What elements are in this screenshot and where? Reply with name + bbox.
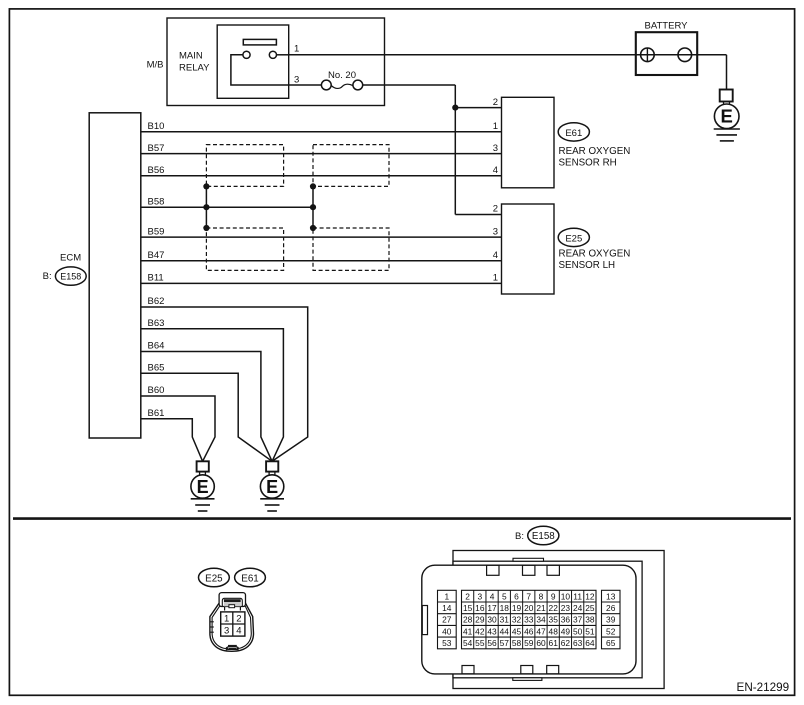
svg-text:B10: B10 (148, 121, 165, 132)
shield around B59/B47 (right) (313, 228, 389, 270)
wire B10 (141, 131, 502, 133)
svg-text:E158: E158 (532, 531, 555, 542)
svg-text:4: 4 (490, 591, 495, 601)
svg-text:1: 1 (444, 591, 449, 601)
svg-text:4: 4 (493, 165, 498, 176)
section separator (13, 517, 791, 520)
connector pin grid 1 2 3 4 (221, 612, 245, 636)
svg-text:2: 2 (236, 613, 241, 624)
svg-text:53: 53 (442, 638, 452, 648)
junction shield left bottom (203, 225, 209, 231)
svg-text:21: 21 (536, 603, 546, 613)
svg-text:B:: B: (43, 271, 52, 282)
svg-text:23: 23 (561, 603, 571, 613)
wire B60 to ground (141, 396, 215, 461)
wire B62 to ground (141, 307, 308, 461)
svg-text:52: 52 (606, 626, 616, 636)
svg-text:5: 5 (502, 591, 507, 601)
svg-text:No. 20: No. 20 (328, 70, 356, 81)
wire B56 (141, 175, 502, 177)
wire B47 (141, 260, 502, 262)
svg-text:BATTERY: BATTERY (645, 20, 689, 31)
wire B11 (141, 282, 502, 284)
svg-text:B62: B62 (148, 296, 165, 307)
svg-text:34: 34 (536, 615, 546, 625)
ground E (B62-B65) (266, 461, 278, 471)
fuse No. 20 (321, 80, 331, 90)
svg-text:E25: E25 (205, 573, 223, 584)
svg-text:9: 9 (551, 591, 556, 601)
svg-text:SENSOR RH: SENSOR RH (559, 157, 617, 168)
svg-text:54: 54 (463, 638, 473, 648)
wire B61 to ground (141, 419, 203, 462)
connector ref E61 (bottom) (235, 568, 266, 587)
svg-text:11: 11 (573, 591, 582, 601)
svg-text:43: 43 (487, 626, 497, 636)
svg-text:EN-21299: EN-21299 (737, 681, 790, 694)
svg-text:E61: E61 (565, 128, 582, 139)
svg-text:1: 1 (294, 44, 299, 55)
svg-text:27: 27 (442, 615, 452, 625)
connector bottom tab (228, 645, 237, 647)
svg-text:59: 59 (524, 638, 534, 648)
svg-text:1: 1 (493, 273, 498, 284)
svg-text:45: 45 (512, 626, 522, 636)
svg-text:3: 3 (478, 591, 483, 601)
svg-text:33: 33 (524, 615, 534, 625)
svg-text:61: 61 (549, 638, 559, 648)
rear oxygen sensor RH box (502, 97, 555, 188)
svg-text:1: 1 (224, 613, 229, 624)
front top tabs (487, 565, 499, 575)
svg-text:SENSOR LH: SENSOR LH (559, 260, 616, 271)
ground E (B60/B61) (197, 461, 209, 471)
svg-text:B:: B: (515, 531, 524, 542)
wire relay contact to pin 1 (277, 54, 289, 56)
svg-text:B59: B59 (148, 226, 165, 237)
svg-text:17: 17 (487, 603, 497, 613)
svg-text:B11: B11 (148, 273, 164, 284)
svg-text:44: 44 (500, 626, 510, 636)
wire fuse to sensors (363, 84, 456, 86)
M/B fuse box (167, 18, 385, 106)
svg-text:35: 35 (549, 615, 559, 625)
svg-text:39: 39 (606, 615, 616, 625)
wire fuse supply vertical (454, 85, 456, 215)
svg-text:40: 40 (442, 626, 452, 636)
svg-text:E: E (721, 106, 733, 127)
svg-text:2: 2 (465, 591, 470, 601)
battery plus terminal (641, 48, 655, 62)
ground connector terminal (battery) (720, 90, 733, 102)
wire B59 (141, 236, 502, 238)
wire B58 (141, 206, 313, 208)
svg-text:7: 7 (526, 591, 531, 601)
E158 connector back plate inner (453, 561, 642, 678)
wire B63 to ground (141, 329, 284, 462)
junction shield left top (203, 183, 209, 189)
svg-text:3: 3 (493, 226, 498, 237)
svg-text:30: 30 (487, 615, 497, 625)
back plate bottom bump (513, 678, 542, 681)
svg-text:48: 48 (549, 626, 559, 636)
wire relay pin 1 through battery (289, 54, 727, 56)
connector ref E25 (558, 228, 589, 246)
svg-text:B60: B60 (148, 385, 165, 396)
svg-text:B47: B47 (148, 250, 165, 261)
svg-text:B64: B64 (148, 341, 165, 352)
wire relay pin 3 to fuse (289, 84, 322, 86)
battery minus terminal (678, 48, 692, 62)
svg-text:E: E (197, 477, 209, 497)
junction shield left B58 (203, 204, 209, 210)
svg-text:E: E (266, 477, 278, 497)
shield around B57/B56 (left) (206, 145, 283, 187)
svg-text:50: 50 (573, 626, 583, 636)
battery (636, 32, 697, 75)
junction supply node (452, 105, 458, 111)
rear oxygen sensor LH box (502, 204, 555, 294)
svg-text:20: 20 (524, 603, 534, 613)
svg-text:4: 4 (236, 625, 241, 636)
svg-text:2: 2 (493, 204, 498, 215)
4-pin sensor connector drawing (210, 603, 254, 651)
svg-text:REAR OXYGEN: REAR OXYGEN (559, 248, 631, 259)
shield around B57/B56 (right) (313, 145, 389, 187)
main relay MAIN RELAY inner box (217, 25, 289, 98)
ECM box (89, 113, 141, 438)
shield around B59/B47 (left) (206, 228, 283, 270)
svg-text:B61: B61 (148, 408, 165, 419)
svg-text:51: 51 (585, 626, 595, 636)
wire B64 to ground (141, 352, 272, 462)
left lock notch (422, 606, 427, 635)
wire supply to E25 pin 2 (455, 214, 501, 216)
svg-text:10: 10 (561, 591, 571, 601)
svg-text:15: 15 (463, 603, 473, 613)
junction shield right bottom (310, 225, 316, 231)
svg-text:M/B: M/B (147, 59, 164, 70)
svg-text:B63: B63 (148, 318, 165, 329)
svg-text:3: 3 (224, 625, 229, 636)
svg-text:3: 3 (493, 143, 498, 154)
svg-text:55: 55 (475, 638, 485, 648)
svg-text:22: 22 (549, 603, 559, 613)
relay contact right (269, 51, 276, 58)
svg-text:42: 42 (475, 626, 485, 636)
svg-text:28: 28 (463, 615, 473, 625)
junction shield right B58 (310, 204, 316, 210)
shield drain link right (312, 186, 314, 228)
svg-text:3: 3 (294, 75, 299, 86)
svg-text:B58: B58 (148, 196, 165, 207)
svg-text:25: 25 (585, 603, 595, 613)
relay coil (243, 39, 276, 45)
back plate top bump (513, 558, 544, 561)
svg-text:62: 62 (561, 638, 571, 648)
svg-text:24: 24 (573, 603, 583, 613)
svg-text:36: 36 (561, 615, 571, 625)
svg-text:E61: E61 (241, 573, 258, 584)
svg-text:31: 31 (500, 615, 510, 625)
wire supply to E61 pin 2 (455, 107, 501, 109)
svg-text:56: 56 (487, 638, 497, 648)
svg-text:26: 26 (606, 603, 616, 613)
svg-text:12: 12 (585, 591, 595, 601)
svg-text:47: 47 (536, 626, 546, 636)
svg-text:29: 29 (475, 615, 485, 625)
wire B57 (141, 153, 502, 155)
svg-text:E158: E158 (60, 271, 81, 281)
wire battery to ground (726, 55, 728, 90)
svg-text:6: 6 (514, 591, 519, 601)
svg-text:41: 41 (463, 626, 473, 636)
svg-text:60: 60 (536, 638, 546, 648)
svg-text:63: 63 (573, 638, 583, 648)
E158 pin grid (438, 590, 457, 649)
wire relay contact to pin 3 (231, 55, 289, 85)
svg-text:8: 8 (539, 591, 544, 601)
svg-text:4: 4 (493, 250, 498, 261)
svg-text:16: 16 (475, 603, 485, 613)
E158 connector back plate outer (453, 551, 664, 689)
svg-text:18: 18 (500, 603, 510, 613)
svg-text:49: 49 (561, 626, 571, 636)
svg-text:19: 19 (512, 603, 522, 613)
svg-text:46: 46 (524, 626, 534, 636)
svg-text:38: 38 (585, 615, 595, 625)
svg-text:E25: E25 (565, 233, 582, 244)
svg-text:58: 58 (512, 638, 522, 648)
svg-text:B56: B56 (148, 165, 165, 176)
connector ref E25 (bottom) (199, 568, 230, 587)
svg-text:13: 13 (606, 591, 616, 601)
svg-text:14: 14 (442, 603, 452, 613)
svg-text:64: 64 (585, 638, 595, 648)
svg-text:REAR OXYGEN: REAR OXYGEN (559, 146, 631, 157)
svg-text:RELAY: RELAY (179, 63, 210, 74)
svg-text:MAIN: MAIN (179, 51, 203, 62)
relay contact left (243, 51, 250, 58)
wire B65 to ground (141, 373, 272, 461)
svg-text:ECM: ECM (60, 252, 81, 263)
svg-text:57: 57 (500, 638, 510, 648)
svg-text:32: 32 (512, 615, 522, 625)
svg-text:65: 65 (606, 638, 616, 648)
svg-text:B65: B65 (148, 363, 165, 374)
svg-text:37: 37 (573, 615, 583, 625)
svg-text:B57: B57 (148, 143, 165, 154)
connector ref E61 (558, 123, 589, 141)
svg-text:1: 1 (493, 121, 498, 132)
svg-text:2: 2 (493, 97, 498, 108)
connector top lock tab (219, 593, 245, 607)
front bottom tabs (462, 666, 474, 674)
E158 connector front body (422, 565, 636, 674)
shield drain link left (205, 186, 207, 228)
ground E (battery) (723, 101, 725, 104)
junction shield right top (310, 183, 316, 189)
